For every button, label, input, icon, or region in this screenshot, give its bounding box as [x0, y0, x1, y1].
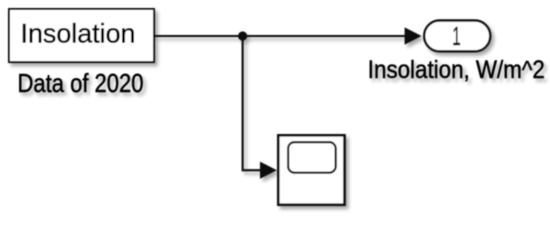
arrowhead into scope — [260, 162, 277, 179]
scope block — [278, 135, 344, 204]
source block Insolation (From Workspace) — [9, 9, 154, 62]
branch wire from junction down and right to scope — [243, 36, 262, 170]
svg-text:Insolation, W/m^2: Insolation, W/m^2 — [368, 56, 545, 84]
scope screen icon — [288, 142, 336, 173]
arrowhead into outport — [405, 27, 422, 44]
svg-text:Insolation: Insolation — [21, 19, 136, 49]
outport block 1 — [424, 21, 490, 52]
junction node (branch point) — [238, 31, 247, 40]
wire from Insolation block to outport — [154, 35, 407, 37]
svg-text:1: 1 — [452, 21, 461, 51]
svg-text:Data of 2020: Data of 2020 — [18, 68, 144, 98]
